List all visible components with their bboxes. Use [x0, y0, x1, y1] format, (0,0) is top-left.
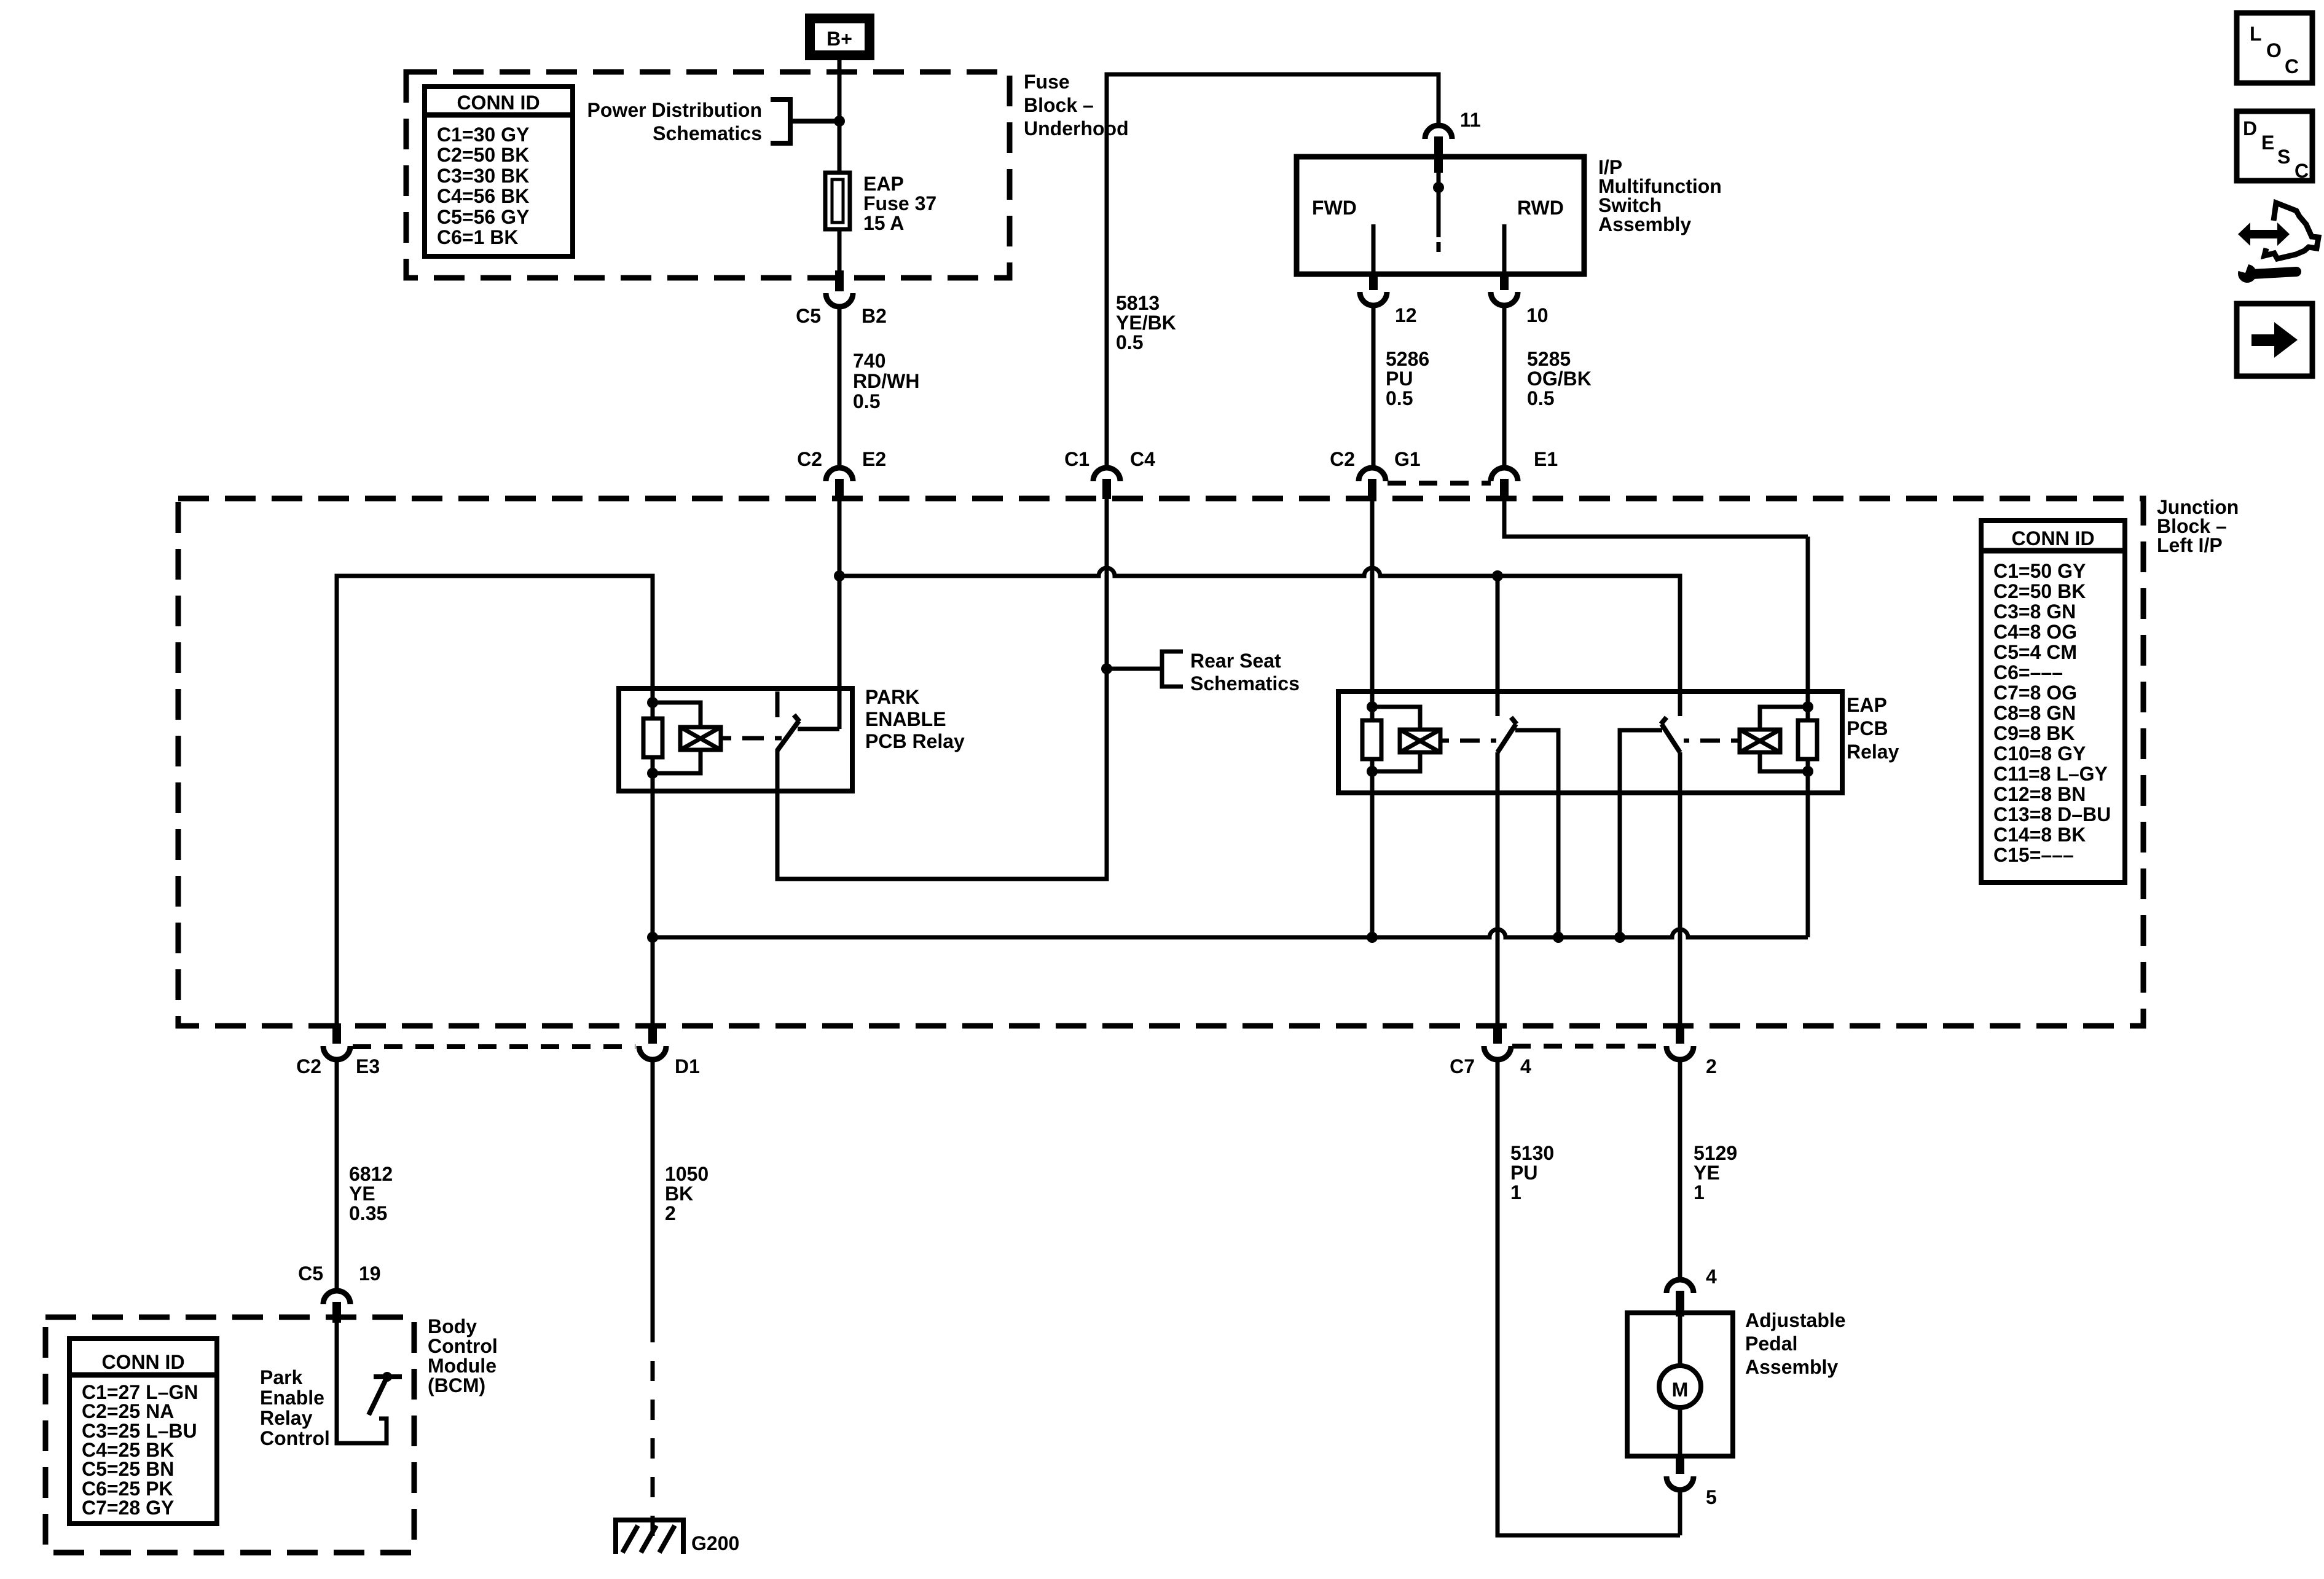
svg-text:CONN ID: CONN ID — [2011, 527, 2094, 549]
svg-text:Left I/P: Left I/P — [2157, 534, 2223, 556]
svg-text:2: 2 — [665, 1202, 676, 1224]
svg-text:B2: B2 — [862, 305, 887, 327]
svg-text:C4: C4 — [1130, 448, 1155, 470]
svg-text:C: C — [2285, 55, 2299, 77]
svg-text:740: 740 — [853, 350, 885, 372]
svg-text:0.5: 0.5 — [853, 390, 880, 412]
svg-text:Pedal: Pedal — [1745, 1333, 1797, 1355]
svg-text:Fuse: Fuse — [1024, 71, 1070, 93]
svg-text:OG/BK: OG/BK — [1527, 368, 1592, 390]
svg-text:C11=8 L–GY: C11=8 L–GY — [1993, 763, 2108, 785]
svg-text:E1: E1 — [1534, 448, 1558, 470]
svg-text:RD/WH: RD/WH — [853, 370, 919, 392]
svg-text:Body: Body — [428, 1315, 477, 1337]
svg-text:5: 5 — [1706, 1486, 1717, 1508]
svg-text:ENABLE: ENABLE — [865, 708, 946, 730]
svg-text:PCB Relay: PCB Relay — [865, 730, 965, 752]
svg-text:12: 12 — [1395, 304, 1417, 326]
svg-text:C1=50 GY: C1=50 GY — [1993, 560, 2086, 582]
svg-text:C7: C7 — [1450, 1055, 1475, 1077]
svg-text:Fuse 37: Fuse 37 — [863, 192, 936, 215]
svg-text:FWD: FWD — [1312, 197, 1357, 219]
svg-text:Assembly: Assembly — [1598, 213, 1691, 235]
svg-text:C7=28 GY: C7=28 GY — [82, 1497, 174, 1519]
svg-text:(BCM): (BCM) — [428, 1374, 485, 1396]
svg-text:C10=8 GY: C10=8 GY — [1993, 742, 2086, 765]
svg-text:1: 1 — [1694, 1181, 1705, 1203]
svg-text:C3=30 BK: C3=30 BK — [437, 165, 529, 187]
svg-text:Assembly: Assembly — [1745, 1356, 1838, 1378]
svg-text:4: 4 — [1706, 1266, 1717, 1288]
svg-text:E2: E2 — [862, 448, 886, 470]
svg-text:Module: Module — [428, 1355, 497, 1377]
svg-text:C13=8 D–BU: C13=8 D–BU — [1993, 803, 2111, 825]
svg-text:C8=8 GN: C8=8 GN — [1993, 702, 2076, 724]
svg-text:C6=–––: C6=––– — [1993, 661, 2063, 683]
svg-text:Relay: Relay — [260, 1407, 313, 1429]
svg-text:S: S — [2277, 146, 2290, 168]
svg-text:C6=1 BK: C6=1 BK — [437, 226, 519, 248]
svg-text:C5: C5 — [298, 1262, 323, 1285]
svg-text:19: 19 — [359, 1262, 381, 1285]
svg-text:C15=–––: C15=––– — [1993, 844, 2074, 866]
svg-text:5130: 5130 — [1510, 1142, 1554, 1164]
svg-text:C12=8 BN: C12=8 BN — [1993, 783, 2086, 805]
svg-text:Park: Park — [260, 1366, 303, 1388]
svg-text:G200: G200 — [691, 1532, 739, 1554]
svg-text:YE/BK: YE/BK — [1116, 312, 1176, 334]
svg-text:C2=50 BK: C2=50 BK — [1993, 580, 2086, 602]
svg-text:Schematics: Schematics — [1190, 672, 1300, 695]
svg-text:D1: D1 — [675, 1055, 700, 1077]
svg-text:B+: B+ — [826, 28, 852, 50]
svg-text:11: 11 — [1460, 109, 1481, 131]
svg-text:C9=8 BK: C9=8 BK — [1993, 722, 2075, 744]
svg-text:C5=25 BN: C5=25 BN — [82, 1458, 174, 1480]
svg-text:C2=50 BK: C2=50 BK — [437, 144, 529, 166]
svg-text:BK: BK — [665, 1183, 693, 1205]
svg-text:C2: C2 — [296, 1055, 321, 1077]
svg-text:5285: 5285 — [1527, 348, 1571, 370]
svg-text:Relay: Relay — [1847, 741, 1899, 763]
svg-text:Enable: Enable — [260, 1387, 324, 1409]
svg-text:C5=56 GY: C5=56 GY — [437, 206, 529, 228]
svg-text:5286: 5286 — [1386, 348, 1429, 370]
svg-text:Power Distribution: Power Distribution — [587, 99, 762, 121]
svg-text:5813: 5813 — [1116, 292, 1160, 314]
svg-text:10: 10 — [1526, 304, 1549, 326]
svg-text:RWD: RWD — [1517, 197, 1564, 219]
svg-text:Underhood: Underhood — [1024, 117, 1129, 140]
svg-text:1: 1 — [1510, 1181, 1521, 1203]
svg-text:Rear Seat: Rear Seat — [1190, 650, 1281, 672]
svg-text:M: M — [1672, 1379, 1689, 1401]
svg-text:C1=30 GY: C1=30 GY — [437, 124, 529, 146]
svg-text:C1: C1 — [1064, 448, 1089, 470]
svg-text:C2: C2 — [797, 448, 822, 470]
svg-text:CONN ID: CONN ID — [101, 1351, 184, 1373]
svg-text:0.5: 0.5 — [1116, 331, 1143, 353]
svg-text:1050: 1050 — [665, 1163, 709, 1185]
svg-text:O: O — [2266, 39, 2282, 61]
svg-text:C: C — [2295, 160, 2309, 182]
svg-text:CONN ID: CONN ID — [457, 92, 540, 114]
svg-text:C2=25 NA: C2=25 NA — [82, 1400, 174, 1422]
svg-text:EAP: EAP — [863, 173, 904, 195]
svg-text:C4=56 BK: C4=56 BK — [437, 185, 529, 207]
svg-text:5129: 5129 — [1694, 1142, 1737, 1164]
svg-text:C3=8 GN: C3=8 GN — [1993, 600, 2076, 623]
svg-text:C2: C2 — [1330, 448, 1355, 470]
svg-text:E: E — [2261, 132, 2274, 154]
svg-text:Adjustable: Adjustable — [1745, 1309, 1846, 1331]
svg-text:D: D — [2243, 117, 2257, 140]
svg-text:L: L — [2250, 23, 2262, 45]
svg-text:Block –: Block – — [1024, 94, 1094, 116]
svg-text:PCB: PCB — [1847, 717, 1888, 739]
svg-text:E3: E3 — [356, 1055, 380, 1077]
svg-text:C4=8 OG: C4=8 OG — [1993, 621, 2077, 643]
svg-text:C5: C5 — [796, 305, 821, 327]
svg-text:15 A: 15 A — [863, 212, 904, 234]
svg-text:6812: 6812 — [349, 1163, 393, 1185]
svg-text:Control: Control — [260, 1427, 330, 1449]
svg-text:YE: YE — [349, 1183, 375, 1205]
svg-text:C14=8 BK: C14=8 BK — [1993, 824, 2086, 846]
svg-text:G1: G1 — [1394, 448, 1421, 470]
svg-text:PU: PU — [1510, 1162, 1537, 1184]
svg-text:0.35: 0.35 — [349, 1202, 387, 1224]
svg-text:EAP: EAP — [1847, 694, 1887, 716]
svg-text:0.5: 0.5 — [1527, 387, 1554, 409]
svg-text:Schematics: Schematics — [653, 122, 762, 144]
svg-text:PARK: PARK — [865, 686, 919, 708]
svg-text:PU: PU — [1386, 368, 1413, 390]
svg-text:Control: Control — [428, 1335, 498, 1357]
svg-text:2: 2 — [1706, 1055, 1717, 1077]
svg-text:YE: YE — [1694, 1162, 1720, 1184]
svg-text:C7=8 OG: C7=8 OG — [1993, 682, 2077, 704]
svg-text:C5=4 CM: C5=4 CM — [1993, 641, 2077, 663]
svg-text:4: 4 — [1520, 1055, 1531, 1077]
svg-text:0.5: 0.5 — [1386, 387, 1413, 409]
